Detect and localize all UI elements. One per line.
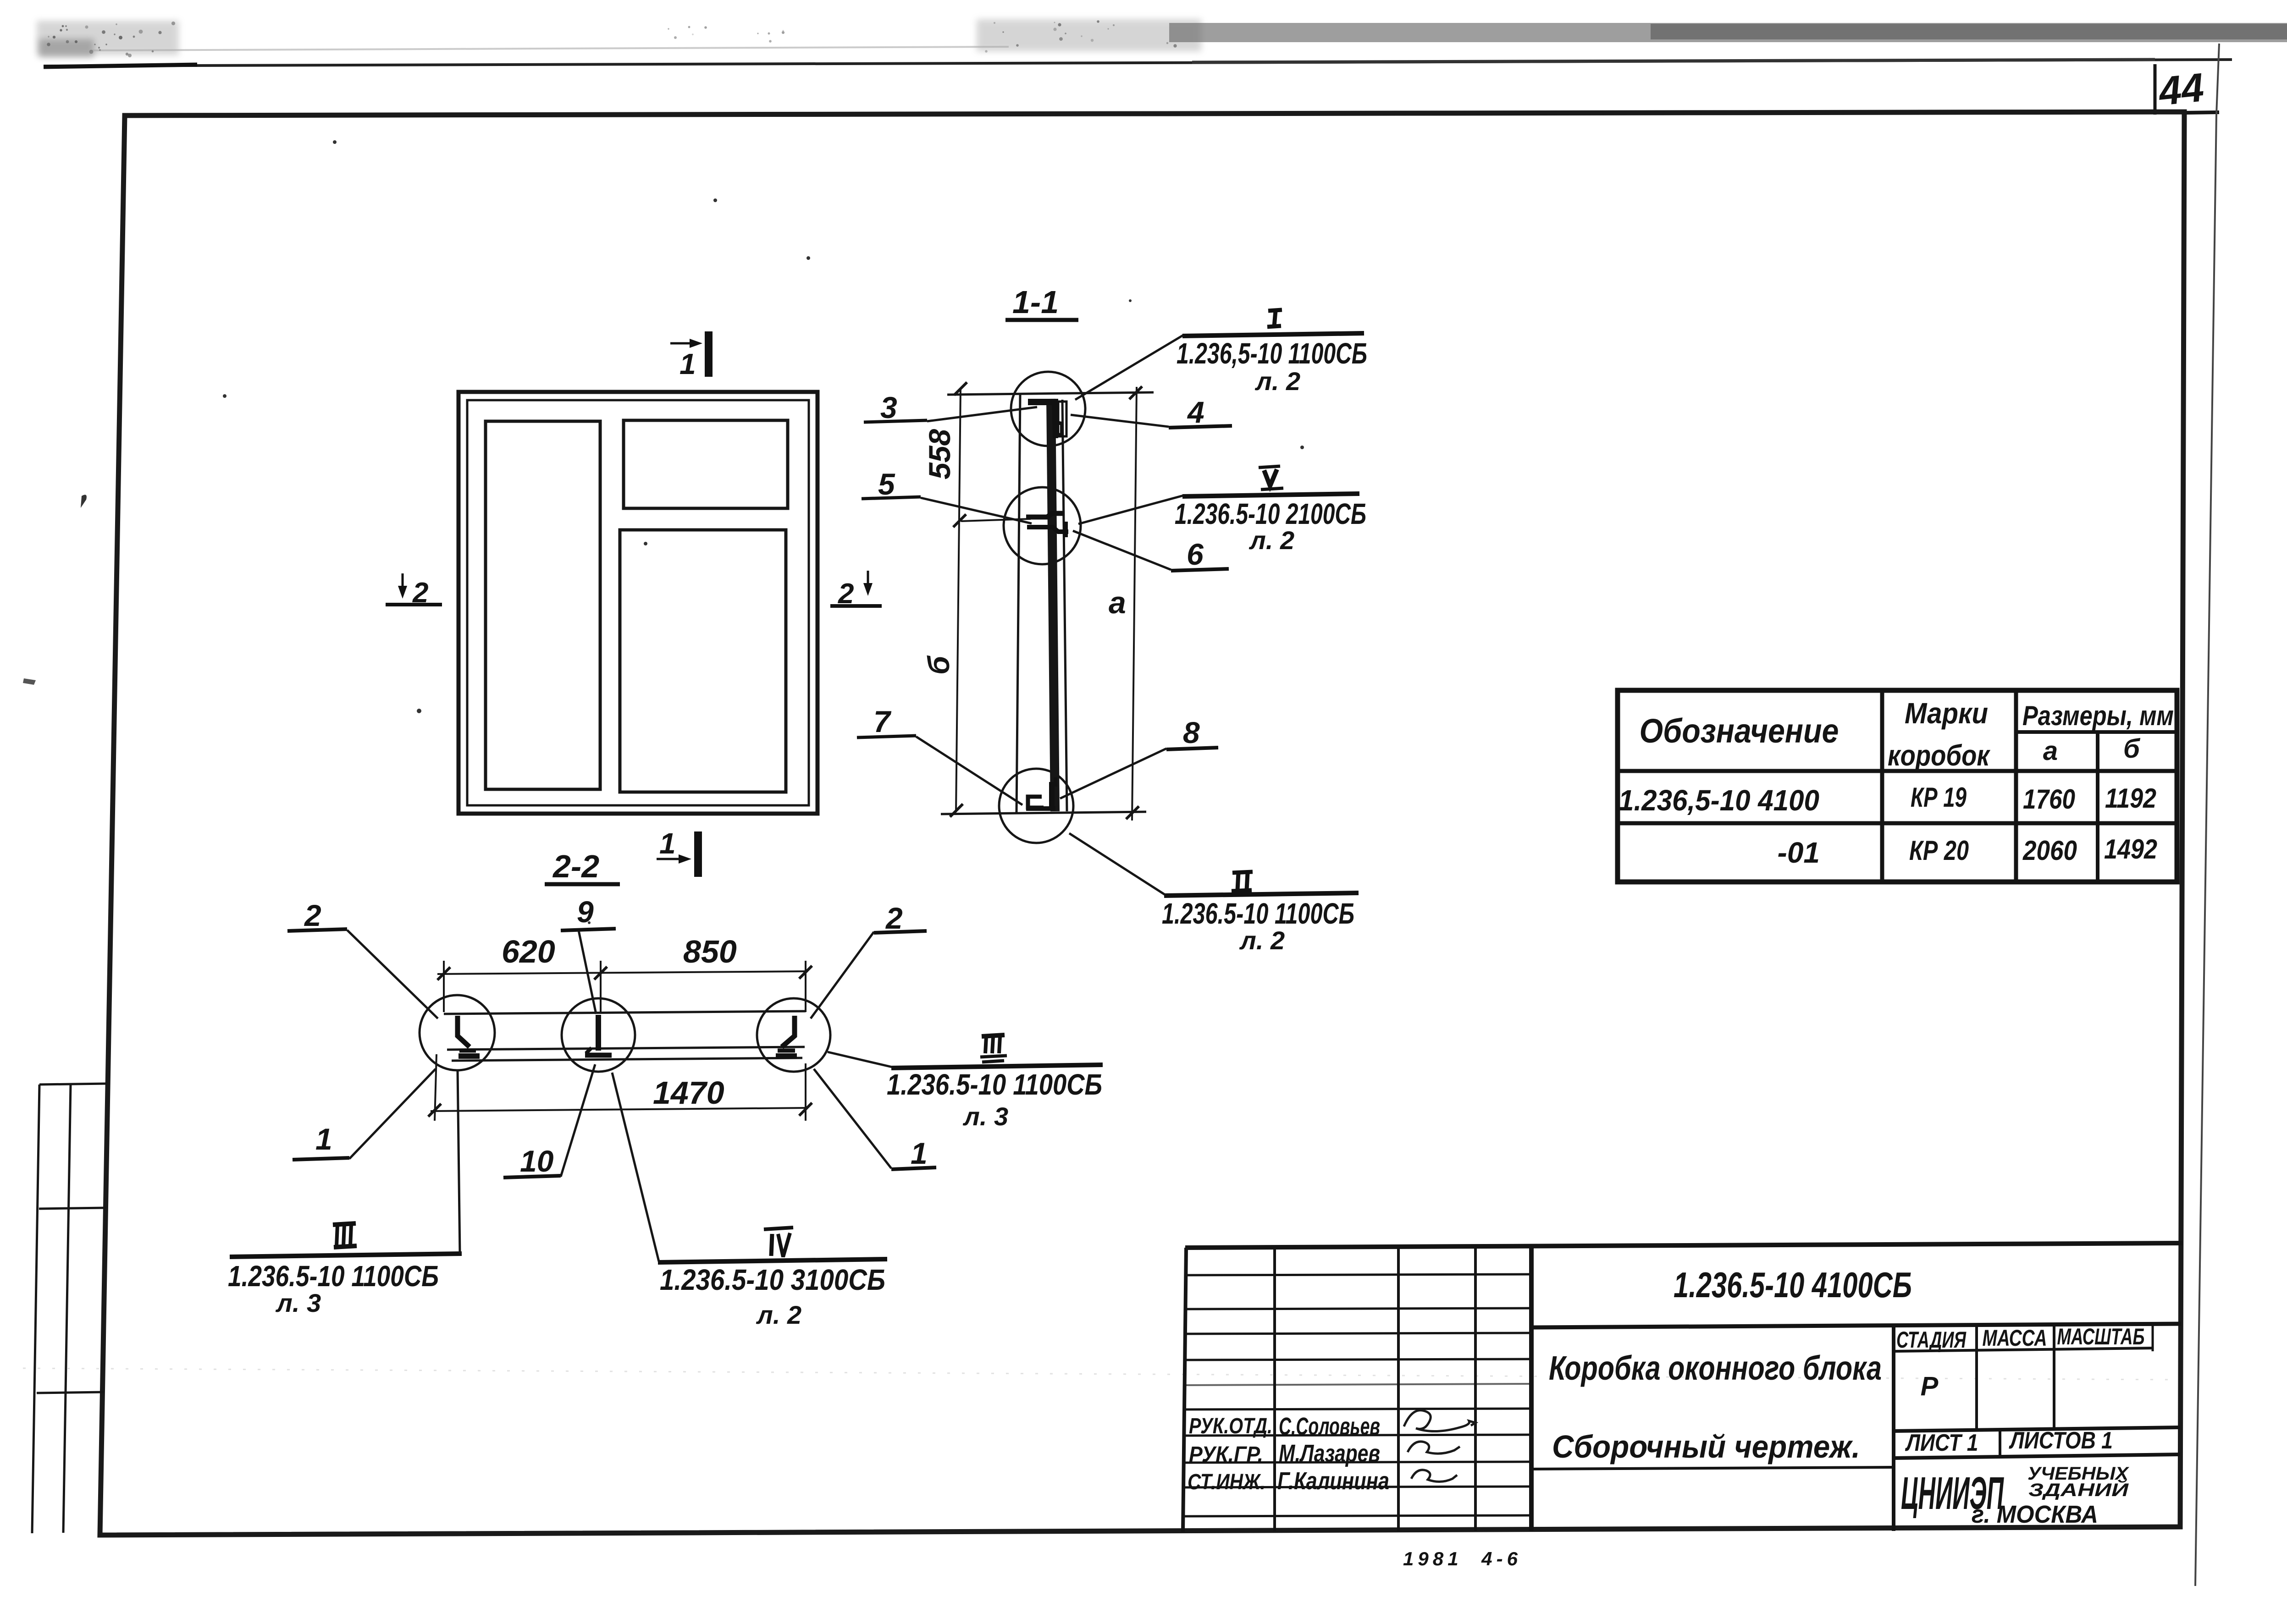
svg-text:Р: Р [1921, 1371, 1939, 1401]
svg-text:б: б [922, 655, 956, 675]
svg-text:1-1: 1-1 [1012, 284, 1059, 320]
svg-text:1.236,5-10 4100: 1.236,5-10 4100 [1619, 784, 1819, 817]
svg-text:а: а [2043, 736, 2058, 766]
svg-text:ЛИСТОВ 1: ЛИСТОВ 1 [2009, 1427, 2113, 1454]
svg-text:2: 2 [412, 577, 428, 609]
svg-text:8: 8 [1183, 716, 1200, 749]
svg-text:6: 6 [1187, 537, 1204, 571]
svg-text:Коробка оконного блока: Коробка оконного блока [1549, 1349, 1882, 1387]
svg-text:7: 7 [873, 705, 892, 738]
svg-text:М.Лазарев: М.Лазарев [1279, 1440, 1380, 1467]
svg-text:1: 1 [911, 1136, 928, 1170]
svg-text:СТ.ИНЖ.: СТ.ИНЖ. [1188, 1470, 1265, 1494]
svg-text:л. 3: л. 3 [275, 1288, 321, 1317]
svg-text:850: 850 [683, 934, 737, 969]
svg-text:5: 5 [878, 467, 895, 501]
svg-text:44: 44 [2156, 64, 2206, 114]
svg-text:Размеры, мм: Размеры, мм [2022, 700, 2174, 731]
svg-text:1760: 1760 [2023, 784, 2075, 815]
svg-text:1: 1 [679, 347, 696, 380]
svg-text:ЗДАНИЙ: ЗДАНИЙ [2028, 1479, 2129, 1500]
svg-text:1.236.5-10 1100СБ: 1.236.5-10 1100СБ [228, 1260, 439, 1293]
svg-text:-01: -01 [1778, 836, 1820, 869]
svg-text:л. 2: л. 2 [756, 1300, 801, 1329]
svg-text:СТАДИЯ: СТАДИЯ [1896, 1327, 1967, 1353]
svg-text:1192: 1192 [2105, 783, 2156, 814]
svg-text:1: 1 [659, 827, 676, 860]
svg-text:2: 2 [838, 578, 854, 610]
svg-text:МАССА: МАССА [1983, 1325, 2047, 1351]
svg-text:С.Соловьев: С.Соловьев [1279, 1413, 1380, 1440]
svg-text:Марки: Марки [1905, 697, 1988, 730]
svg-text:КР 19: КР 19 [1911, 782, 1967, 813]
svg-text:1.236.5-10 3100СБ: 1.236.5-10 3100СБ [660, 1263, 885, 1296]
svg-text:л. 2: л. 2 [1239, 926, 1285, 955]
svg-text:558: 558 [923, 429, 956, 479]
svg-text:2-2: 2-2 [552, 848, 599, 884]
svg-text:620: 620 [502, 934, 555, 969]
svg-text:б: б [2123, 734, 2141, 764]
svg-text:Сборочный чертеж.: Сборочный чертеж. [1552, 1429, 1860, 1464]
svg-text:Г.Калинина: Г.Калинина [1277, 1467, 1389, 1495]
svg-text:10: 10 [520, 1144, 554, 1178]
svg-text:л. 3: л. 3 [962, 1102, 1008, 1131]
svg-text:Обозначение: Обозначение [1640, 712, 1839, 750]
svg-text:МАСШТАБ: МАСШТАБ [2057, 1324, 2145, 1349]
svg-text:2: 2 [304, 898, 321, 932]
svg-text:РУК.ГР.: РУК.ГР. [1189, 1442, 1263, 1467]
svg-text:коробок: коробок [1888, 739, 1991, 772]
svg-text:4: 4 [1187, 395, 1204, 429]
svg-text:3: 3 [880, 391, 897, 424]
svg-text:ЛИСТ 1: ЛИСТ 1 [1905, 1430, 1978, 1456]
svg-text:г. МОСКВА: г. МОСКВА [1972, 1501, 2098, 1528]
svg-text:9: 9 [577, 895, 594, 929]
svg-text:л. 2: л. 2 [1248, 526, 1294, 555]
svg-text:1.236.5-10 4100СБ: 1.236.5-10 4100СБ [1674, 1265, 1912, 1305]
svg-text:1470: 1470 [653, 1075, 724, 1111]
svg-text:1.236.5-10 1100СБ: 1.236.5-10 1100СБ [1162, 897, 1354, 930]
svg-text:2: 2 [885, 901, 903, 935]
svg-text:л. 2: л. 2 [1254, 367, 1300, 396]
svg-text:2060: 2060 [2022, 835, 2077, 866]
svg-text:1.236.5-10 1100СБ: 1.236.5-10 1100СБ [887, 1068, 1102, 1101]
svg-text:1.236,5-10 1100СБ: 1.236,5-10 1100СБ [1177, 337, 1367, 370]
svg-text:а: а [1109, 585, 1126, 620]
svg-text:КР 20: КР 20 [1909, 835, 1969, 866]
svg-text:РУК.ОТД.: РУК.ОТД. [1189, 1414, 1272, 1438]
svg-text:1: 1 [315, 1122, 332, 1156]
svg-text:1492: 1492 [2104, 834, 2157, 864]
